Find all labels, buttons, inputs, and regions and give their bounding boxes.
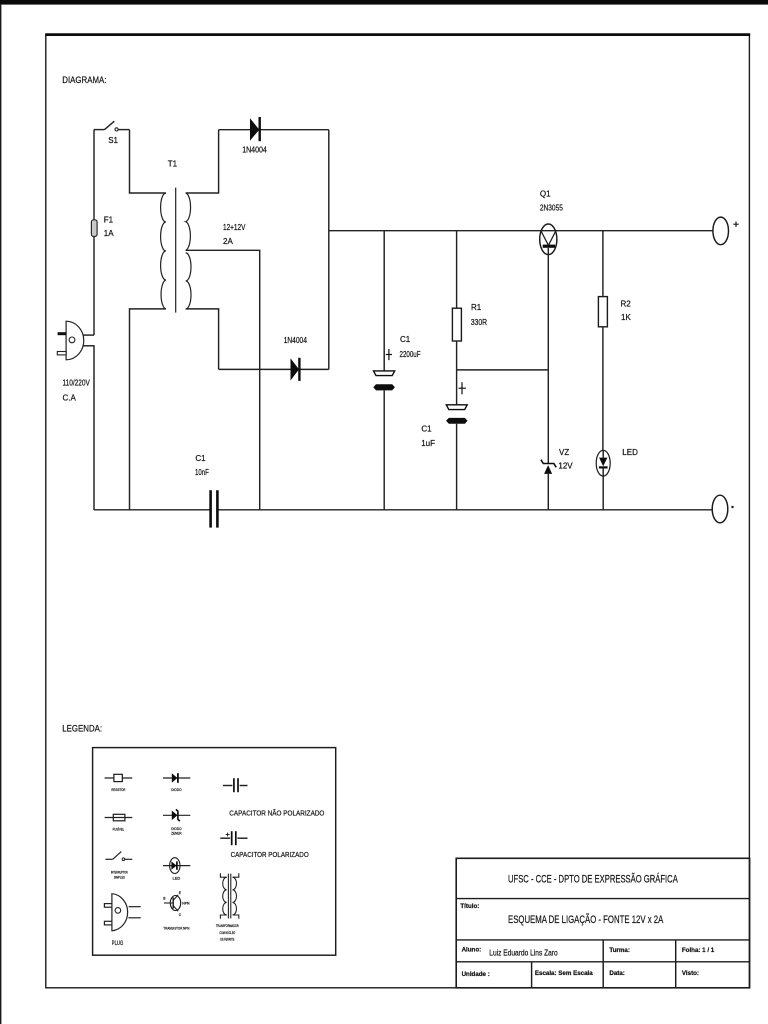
legend transistor NPN symbol xyxy=(164,895,181,911)
wire: R2 branch upper xyxy=(602,231,604,297)
transformer T1 secondary winding upper xyxy=(186,193,191,250)
svg-text:PLUG: PLUG xyxy=(112,941,124,947)
svg-text:Título:: Título: xyxy=(460,903,479,910)
legend switch symbol xyxy=(105,852,132,861)
fuse F1 xyxy=(91,220,97,237)
svg-text:C1: C1 xyxy=(195,454,206,463)
label Q1 2N3055 xyxy=(540,190,563,213)
svg-text:VZ: VZ xyxy=(559,448,569,457)
wire: switch down to primary top xyxy=(130,130,166,193)
svg-text:12V: 12V xyxy=(558,461,573,470)
svg-text:330R: 330R xyxy=(471,318,488,327)
diode D2 1N4004 xyxy=(291,358,300,381)
label R1 330R xyxy=(471,303,488,327)
plus sign of C1 1uF xyxy=(459,382,466,394)
label C1 2200uF xyxy=(400,335,421,359)
svg-text:Aluno:: Aluno: xyxy=(462,947,482,954)
svg-text:S1: S1 xyxy=(108,136,118,145)
wire: R1 branch upper xyxy=(456,231,458,309)
wire: main positive rail xyxy=(329,230,713,232)
svg-text:1uF: 1uF xyxy=(421,439,435,448)
svg-text:ESQUEMA DE LIGAÇÃO - FONTE 12V: ESQUEMA DE LIGAÇÃO - FONTE 12V x 2A xyxy=(508,913,664,926)
wire: node down to zener xyxy=(547,370,549,464)
svg-text:1N4004: 1N4004 xyxy=(284,336,308,345)
LED xyxy=(596,450,610,476)
legend transistor pin labels xyxy=(163,891,190,917)
capacitor C1 2200uF xyxy=(373,371,395,391)
svg-text:T1: T1 xyxy=(168,159,178,168)
label 12+12V 2A xyxy=(223,223,246,246)
svg-text:R2: R2 xyxy=(621,300,632,309)
label F1 1A xyxy=(104,216,114,239)
wire: C1 1uF to bottom rail xyxy=(456,424,458,510)
svg-text:Turma:: Turma: xyxy=(609,947,630,954)
svg-text:TRANSISTOR NPN: TRANSISTOR NPN xyxy=(163,926,189,931)
legend box xyxy=(93,748,336,956)
svg-text:110/220V: 110/220V xyxy=(63,379,91,388)
capacitor C1 10nF plates xyxy=(211,490,218,527)
output terminal negative xyxy=(712,495,728,523)
svg-text:1A: 1A xyxy=(104,229,114,238)
svg-text:CAPACITOR NÃO POLARIZADO: CAPACITOR NÃO POLARIZADO xyxy=(229,808,324,817)
zener diode VZ xyxy=(541,460,556,474)
switch S1 xyxy=(94,121,130,131)
wire: LED to bottom rail xyxy=(602,467,604,509)
resistor R1 xyxy=(452,308,461,341)
svg-text:Escala: Sem Escala: Escala: Sem Escala xyxy=(535,970,593,977)
svg-text:10nF: 10nF xyxy=(195,468,209,477)
wire: top diode row xyxy=(219,129,329,131)
svg-text:COM NÚCLEO: COM NÚCLEO xyxy=(219,930,235,935)
diode D1 1N4004 xyxy=(250,117,260,141)
wire: Q1 emitter down to base node xyxy=(547,248,549,370)
label C1 10nF xyxy=(195,454,209,477)
svg-text:FUSÍVEL: FUSÍVEL xyxy=(113,826,125,831)
legend capacitor non-polarized symbol xyxy=(223,778,248,792)
wire: R1 bottom to base node xyxy=(456,341,458,370)
svg-text:2200uF: 2200uF xyxy=(400,350,421,359)
svg-text:Data:: Data: xyxy=(609,970,624,977)
plus sign of C1 2200uF xyxy=(386,349,392,360)
wire: bottom rail right of 10nF xyxy=(217,509,713,511)
legend label DIODO ZENER xyxy=(171,826,181,836)
transformer T1 primary winding xyxy=(161,193,166,309)
plug 110/220V xyxy=(57,321,83,360)
transformer T1 secondary winding lower xyxy=(186,253,191,309)
svg-text:C1: C1 xyxy=(400,335,411,344)
wire: primary bottom to bottom rail xyxy=(130,309,166,510)
wire: left vertical fuse to plug top xyxy=(93,237,95,336)
wire: zener to bottom rail xyxy=(547,474,549,510)
svg-text:SIMPLES: SIMPLES xyxy=(114,874,125,879)
svg-text:NPN: NPN xyxy=(182,902,190,906)
title block vertical dividers xyxy=(532,940,676,988)
legend plug symbol xyxy=(104,894,140,931)
svg-text:R1: R1 xyxy=(471,303,482,312)
svg-text:2A: 2A xyxy=(223,237,233,246)
svg-text:UFSC - CCE - DPTO DE EXPRESSÃO: UFSC - CCE - DPTO DE EXPRESSÃO GRÁFICA xyxy=(508,873,678,886)
svg-text:C.A: C.A xyxy=(63,394,77,403)
plus label at terminal xyxy=(733,222,738,228)
svg-text:RESISTOR: RESISTOR xyxy=(111,787,125,792)
svg-text:C1: C1 xyxy=(421,425,432,434)
svg-text:TRANSFORMADOR: TRANSFORMADOR xyxy=(216,923,239,928)
svg-text:1K: 1K xyxy=(621,313,631,322)
legend diode symbol xyxy=(163,773,190,783)
wire: bottom rail left of 10nF xyxy=(94,509,210,511)
svg-text:12+12V: 12+12V xyxy=(223,223,246,232)
legend fuse symbol xyxy=(105,814,133,821)
wire: node to C1 1uF xyxy=(456,370,458,405)
svg-text:LED: LED xyxy=(173,875,181,880)
label R2 1K xyxy=(621,300,632,322)
label 110/220V C.A xyxy=(63,379,91,403)
wire: secondary center tap xyxy=(186,250,260,510)
legend zener symbol xyxy=(163,809,190,821)
minus label at terminal xyxy=(731,506,733,508)
legend transformer symbol xyxy=(220,873,238,919)
wire: C1 2200uF branch lower xyxy=(383,390,385,509)
wire: secondary bottom tap down xyxy=(186,309,219,370)
resistor R2 xyxy=(598,297,607,327)
scan black left edge line xyxy=(0,5,1,1024)
svg-text:LEGENDA:: LEGENDA: xyxy=(62,724,102,735)
svg-text:Q1: Q1 xyxy=(540,190,551,199)
svg-text:ZENER: ZENER xyxy=(171,831,181,836)
legend LED symbol xyxy=(163,858,190,874)
scan black top bar xyxy=(0,0,768,5)
wire: C1 2200uF branch upper xyxy=(383,231,385,371)
svg-text:Visto:: Visto: xyxy=(682,970,699,977)
label VZ 12V xyxy=(558,448,573,471)
svg-text:F1: F1 xyxy=(104,216,114,225)
title block outer frame xyxy=(456,858,749,988)
wire: left vertical plug to bottom rail xyxy=(93,346,95,510)
wire: rectifier output vertical xyxy=(328,130,330,370)
wire: lower diode row xyxy=(219,368,329,370)
label C1 1uF xyxy=(421,425,435,449)
svg-text:DE FERRITE: DE FERRITE xyxy=(220,936,234,941)
legend label INTERRUPTOR SIMPLES xyxy=(111,870,128,880)
svg-text:Luiz Eduardo Lins Zaro: Luiz Eduardo Lins Zaro xyxy=(489,948,558,957)
svg-text:Folha: 1 / 1: Folha: 1 / 1 xyxy=(682,947,715,954)
capacitor C1 1uF xyxy=(446,405,467,424)
transistor Q1 xyxy=(540,224,557,255)
transformer T1 core xyxy=(175,188,177,313)
legend resistor symbol xyxy=(105,774,133,781)
svg-text:Unidade :: Unidade : xyxy=(462,971,490,978)
wire: plug top output xyxy=(83,334,94,336)
wire: R2 to LED xyxy=(602,327,604,451)
svg-text:2N3055: 2N3055 xyxy=(540,204,563,213)
wire: plug bottom output xyxy=(83,345,95,347)
svg-text:1N4004: 1N4004 xyxy=(242,145,267,154)
wire: left vertical from switch to fuse xyxy=(93,130,95,221)
svg-text:CAPACITOR POLARIZADO: CAPACITOR POLARIZADO xyxy=(231,850,309,859)
svg-text:DIODO: DIODO xyxy=(171,787,181,792)
legend capacitor polarized symbol xyxy=(220,831,247,845)
svg-text:DIAGRAMA:: DIAGRAMA: xyxy=(62,75,106,86)
title block horizontal dividers xyxy=(456,899,749,962)
output terminal positive xyxy=(713,217,729,245)
wire: secondary top tap up to diode row xyxy=(186,130,219,193)
svg-text:LED: LED xyxy=(622,448,638,457)
wire: base row R1 to Q1 xyxy=(457,369,549,371)
legend label TRANSFORMADOR COM NUCLEO DE FERRITE xyxy=(216,923,239,942)
